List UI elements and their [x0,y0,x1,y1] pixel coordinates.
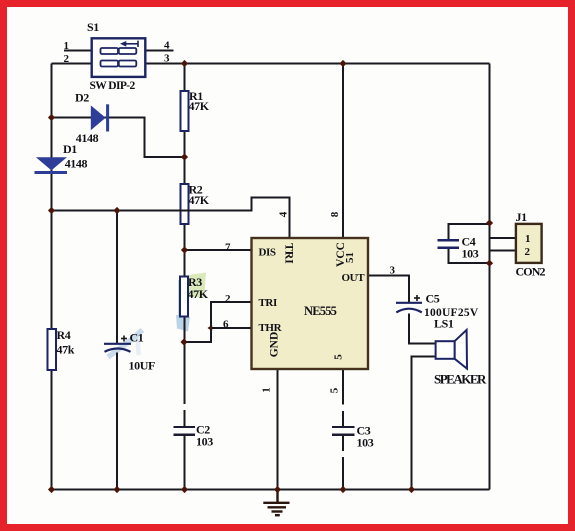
svg-text:LS1: LS1 [434,317,454,331]
svg-text:J1: J1 [516,210,528,224]
svg-text:D2: D2 [75,91,89,105]
svg-text:103: 103 [196,435,213,449]
svg-text:OUT: OUT [342,272,366,284]
svg-text:R4: R4 [57,328,71,342]
svg-text:10UF: 10UF [129,359,155,373]
svg-text:4: 4 [164,40,170,52]
svg-text:47k: 47k [57,343,75,357]
svg-text:TRI: TRI [283,243,295,264]
svg-text:1: 1 [261,387,273,393]
svg-text:4148: 4148 [65,157,88,171]
svg-text:GND: GND [269,332,281,358]
svg-text:C1: C1 [130,331,144,345]
svg-text:C5: C5 [426,292,440,306]
svg-text:5: 5 [329,387,341,393]
svg-text:SW DIP-2: SW DIP-2 [90,80,136,92]
svg-text:103: 103 [462,247,479,261]
svg-text:47K: 47K [188,287,209,301]
svg-text:8: 8 [329,211,341,217]
svg-text:CON2: CON2 [516,265,546,279]
svg-text:D1: D1 [63,142,77,156]
svg-text:1: 1 [525,233,530,245]
svg-text:DIS: DIS [259,247,276,259]
svg-text:TRI: TRI [259,297,277,309]
svg-text:7: 7 [225,242,231,254]
svg-text:S1: S1 [87,20,99,34]
svg-text:4148: 4148 [76,131,99,145]
svg-text:5: 5 [333,354,345,360]
svg-text:47K: 47K [189,99,210,113]
svg-text:6: 6 [223,319,229,331]
svg-text:2: 2 [225,293,231,305]
svg-text:4: 4 [278,211,290,217]
svg-text:2: 2 [64,53,70,65]
svg-text:103: 103 [357,436,374,450]
svg-text:47K: 47K [189,193,210,207]
svg-text:2: 2 [525,246,531,258]
svg-text:3: 3 [390,265,396,277]
svg-text:SPEAKER: SPEAKER [434,372,487,387]
svg-text:51: 51 [344,252,356,263]
svg-text:NE555: NE555 [304,304,337,318]
svg-text:1: 1 [64,40,69,52]
svg-text:3: 3 [164,53,170,65]
